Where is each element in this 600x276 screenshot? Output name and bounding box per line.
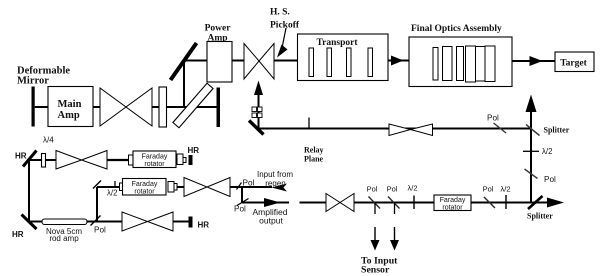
svg-text:Pol: Pol bbox=[367, 185, 378, 194]
telescope lens pair L5 bbox=[184, 178, 230, 197]
half wave plate tick bbox=[413, 196, 415, 210]
wire bbox=[184, 60, 207, 62]
wire bbox=[471, 202, 548, 204]
svg-text:Pol: Pol bbox=[234, 205, 246, 214]
wire bbox=[35, 106, 48, 108]
wire bbox=[230, 186, 272, 188]
svg-text:Pol: Pol bbox=[243, 179, 255, 188]
45 degree fold mirror M1 bbox=[171, 43, 197, 80]
telescope lens pair L4 bbox=[56, 151, 107, 170]
wire bbox=[173, 221, 189, 223]
svg-text:rotator: rotator bbox=[442, 205, 463, 212]
transport slab 2 bbox=[327, 48, 332, 77]
svg-text:Target: Target bbox=[560, 59, 587, 69]
half wave plate tick bbox=[114, 181, 116, 188]
polarizer tick bbox=[388, 197, 400, 209]
sensor stub bbox=[374, 203, 376, 215]
bottom splitter tick bbox=[528, 196, 543, 209]
svg-text:Sensor: Sensor bbox=[361, 265, 390, 276]
wire bbox=[167, 106, 217, 108]
telescope lens pair L1 bbox=[100, 88, 152, 126]
svg-text:Pol: Pol bbox=[94, 226, 106, 235]
wire bbox=[512, 60, 555, 62]
half wave plate tick bbox=[523, 150, 539, 152]
svg-text:HR: HR bbox=[188, 146, 200, 155]
45 degree fold mirror M2 bbox=[249, 121, 264, 135]
svg-text:λ/2: λ/2 bbox=[107, 189, 117, 198]
Final Optics Assembly box bbox=[409, 37, 512, 87]
wire dash bbox=[300, 202, 327, 204]
wire bbox=[388, 60, 409, 62]
output arrowhead bbox=[547, 198, 564, 208]
polarizer tick bbox=[484, 197, 495, 208]
telescope lens pair L7 bbox=[326, 194, 354, 212]
up arrowhead bbox=[526, 95, 537, 113]
slanted polarizer slab bbox=[173, 83, 213, 127]
foa slab 3 bbox=[457, 47, 464, 81]
svg-text:regen: regen bbox=[265, 179, 285, 188]
regen connector wire bbox=[241, 187, 243, 203]
wire bbox=[93, 106, 100, 108]
wire bbox=[152, 106, 159, 108]
pickoff annotation line bbox=[282, 28, 286, 48]
svg-text:Pol: Pol bbox=[387, 185, 398, 194]
polarizer tick bbox=[525, 169, 538, 179]
quarter wave plate bbox=[42, 154, 46, 168]
vertical wire left bbox=[28, 160, 30, 223]
sensor stub bbox=[394, 203, 396, 215]
svg-text:Mirror: Mirror bbox=[17, 76, 49, 87]
svg-text:Pol: Pol bbox=[487, 114, 499, 123]
foa slab 2 bbox=[443, 47, 453, 81]
diagnostic vertical wire bbox=[530, 110, 532, 203]
faraday rotator 1 bbox=[129, 151, 187, 168]
svg-text:Pickoff: Pickoff bbox=[270, 21, 300, 31]
wire bbox=[29, 159, 42, 161]
Main Amp box bbox=[48, 87, 93, 127]
transport slab 1 bbox=[309, 48, 314, 77]
polarizer tick bbox=[369, 197, 381, 209]
polarizer tick bbox=[237, 199, 249, 206]
svg-text:rotator: rotator bbox=[134, 189, 155, 196]
relay telescope lens pair L3 bbox=[389, 124, 433, 136]
beam arrowhead bbox=[530, 56, 543, 66]
wire bbox=[232, 60, 244, 62]
wire bbox=[46, 159, 57, 161]
deformable mirror DM bbox=[32, 87, 35, 127]
injection arrowhead bbox=[254, 81, 263, 96]
svg-text:Transport: Transport bbox=[317, 38, 359, 48]
beam arrowhead bbox=[391, 56, 404, 66]
relay plane tick bbox=[308, 118, 310, 129]
Target box bbox=[555, 52, 594, 72]
splitter tick top bbox=[526, 125, 540, 136]
svg-text:Faraday: Faraday bbox=[142, 154, 168, 161]
pockels cell bbox=[252, 107, 262, 118]
svg-text:Splitter: Splitter bbox=[527, 212, 553, 221]
foa slab 5 bbox=[476, 47, 486, 82]
wire bbox=[97, 186, 120, 188]
svg-text:Faraday: Faraday bbox=[440, 197, 466, 204]
faraday rotator 2 bbox=[120, 179, 178, 196]
wire bbox=[87, 221, 122, 223]
sensor arrow 1 bbox=[371, 227, 380, 251]
HR mirror bar bbox=[189, 217, 193, 228]
Transport box bbox=[298, 34, 389, 81]
wire bbox=[29, 221, 42, 223]
svg-text:Input from: Input from bbox=[257, 170, 293, 179]
svg-text:Power: Power bbox=[205, 24, 232, 34]
svg-text:Faraday: Faraday bbox=[132, 181, 158, 188]
svg-text:Splitter: Splitter bbox=[544, 126, 570, 135]
HR mirror bottom left bbox=[22, 215, 37, 230]
amplified output arrowhead bbox=[264, 198, 281, 207]
svg-text:λ/2: λ/2 bbox=[407, 184, 417, 193]
etalon plate bbox=[159, 87, 167, 127]
relay wire bbox=[258, 128, 531, 130]
svg-text:rotator: rotator bbox=[144, 161, 165, 168]
wire bbox=[274, 60, 298, 62]
foa slab 6 bbox=[485, 46, 495, 82]
polarizer tick on relay wire bbox=[494, 123, 507, 133]
sensor arrow 2 bbox=[390, 227, 399, 251]
foa slab 1 bbox=[433, 48, 438, 81]
svg-text:HR: HR bbox=[15, 152, 27, 161]
svg-text:λ/4: λ/4 bbox=[43, 136, 54, 145]
svg-text:Main: Main bbox=[58, 99, 82, 110]
transport slab 4 bbox=[368, 48, 373, 77]
half wave plate tick bbox=[505, 195, 507, 209]
svg-text:Amp: Amp bbox=[58, 110, 80, 121]
polarizer tick bbox=[237, 183, 242, 190]
svg-text:λ/2: λ/2 bbox=[542, 147, 552, 156]
svg-text:λ/2: λ/2 bbox=[500, 185, 510, 194]
injection up arrow wire bbox=[258, 95, 260, 129]
svg-text:Relay: Relay bbox=[304, 146, 324, 155]
svg-text:HR: HR bbox=[198, 221, 210, 230]
Power Amp box bbox=[207, 42, 232, 83]
Nova rod amp bbox=[42, 219, 87, 225]
vertical wire bbox=[96, 187, 98, 222]
wire bbox=[177, 186, 184, 188]
HR mirror bar bbox=[189, 155, 193, 165]
pickoff arrowhead bbox=[277, 45, 288, 58]
wire bbox=[354, 202, 434, 204]
beam riser wire bbox=[183, 61, 185, 108]
HR mirror top left bbox=[23, 151, 37, 167]
telescope lens pair L2 bbox=[244, 44, 274, 80]
wire bbox=[107, 159, 129, 161]
svg-text:Final Optics Assembly: Final Optics Assembly bbox=[411, 24, 502, 34]
polarizer tick bbox=[91, 216, 101, 226]
end mirror bar bbox=[217, 88, 221, 128]
foa slab 4 bbox=[466, 46, 476, 82]
amplified output wire bbox=[242, 202, 289, 204]
svg-text:output: output bbox=[259, 216, 283, 226]
svg-text:rod amp: rod amp bbox=[49, 234, 79, 243]
svg-text:Pol: Pol bbox=[544, 175, 556, 184]
svg-text:Plane: Plane bbox=[304, 155, 324, 164]
svg-text:Pol: Pol bbox=[483, 185, 494, 194]
polarizer tick bbox=[93, 181, 101, 189]
svg-text:HR: HR bbox=[12, 230, 24, 239]
svg-text:H. S.: H. S. bbox=[270, 8, 290, 18]
faraday rotator 3 bbox=[434, 195, 471, 212]
transport slab 3 bbox=[347, 48, 352, 77]
input from regen arrowhead bbox=[272, 184, 288, 192]
telescope lens pair L6 bbox=[122, 212, 173, 231]
